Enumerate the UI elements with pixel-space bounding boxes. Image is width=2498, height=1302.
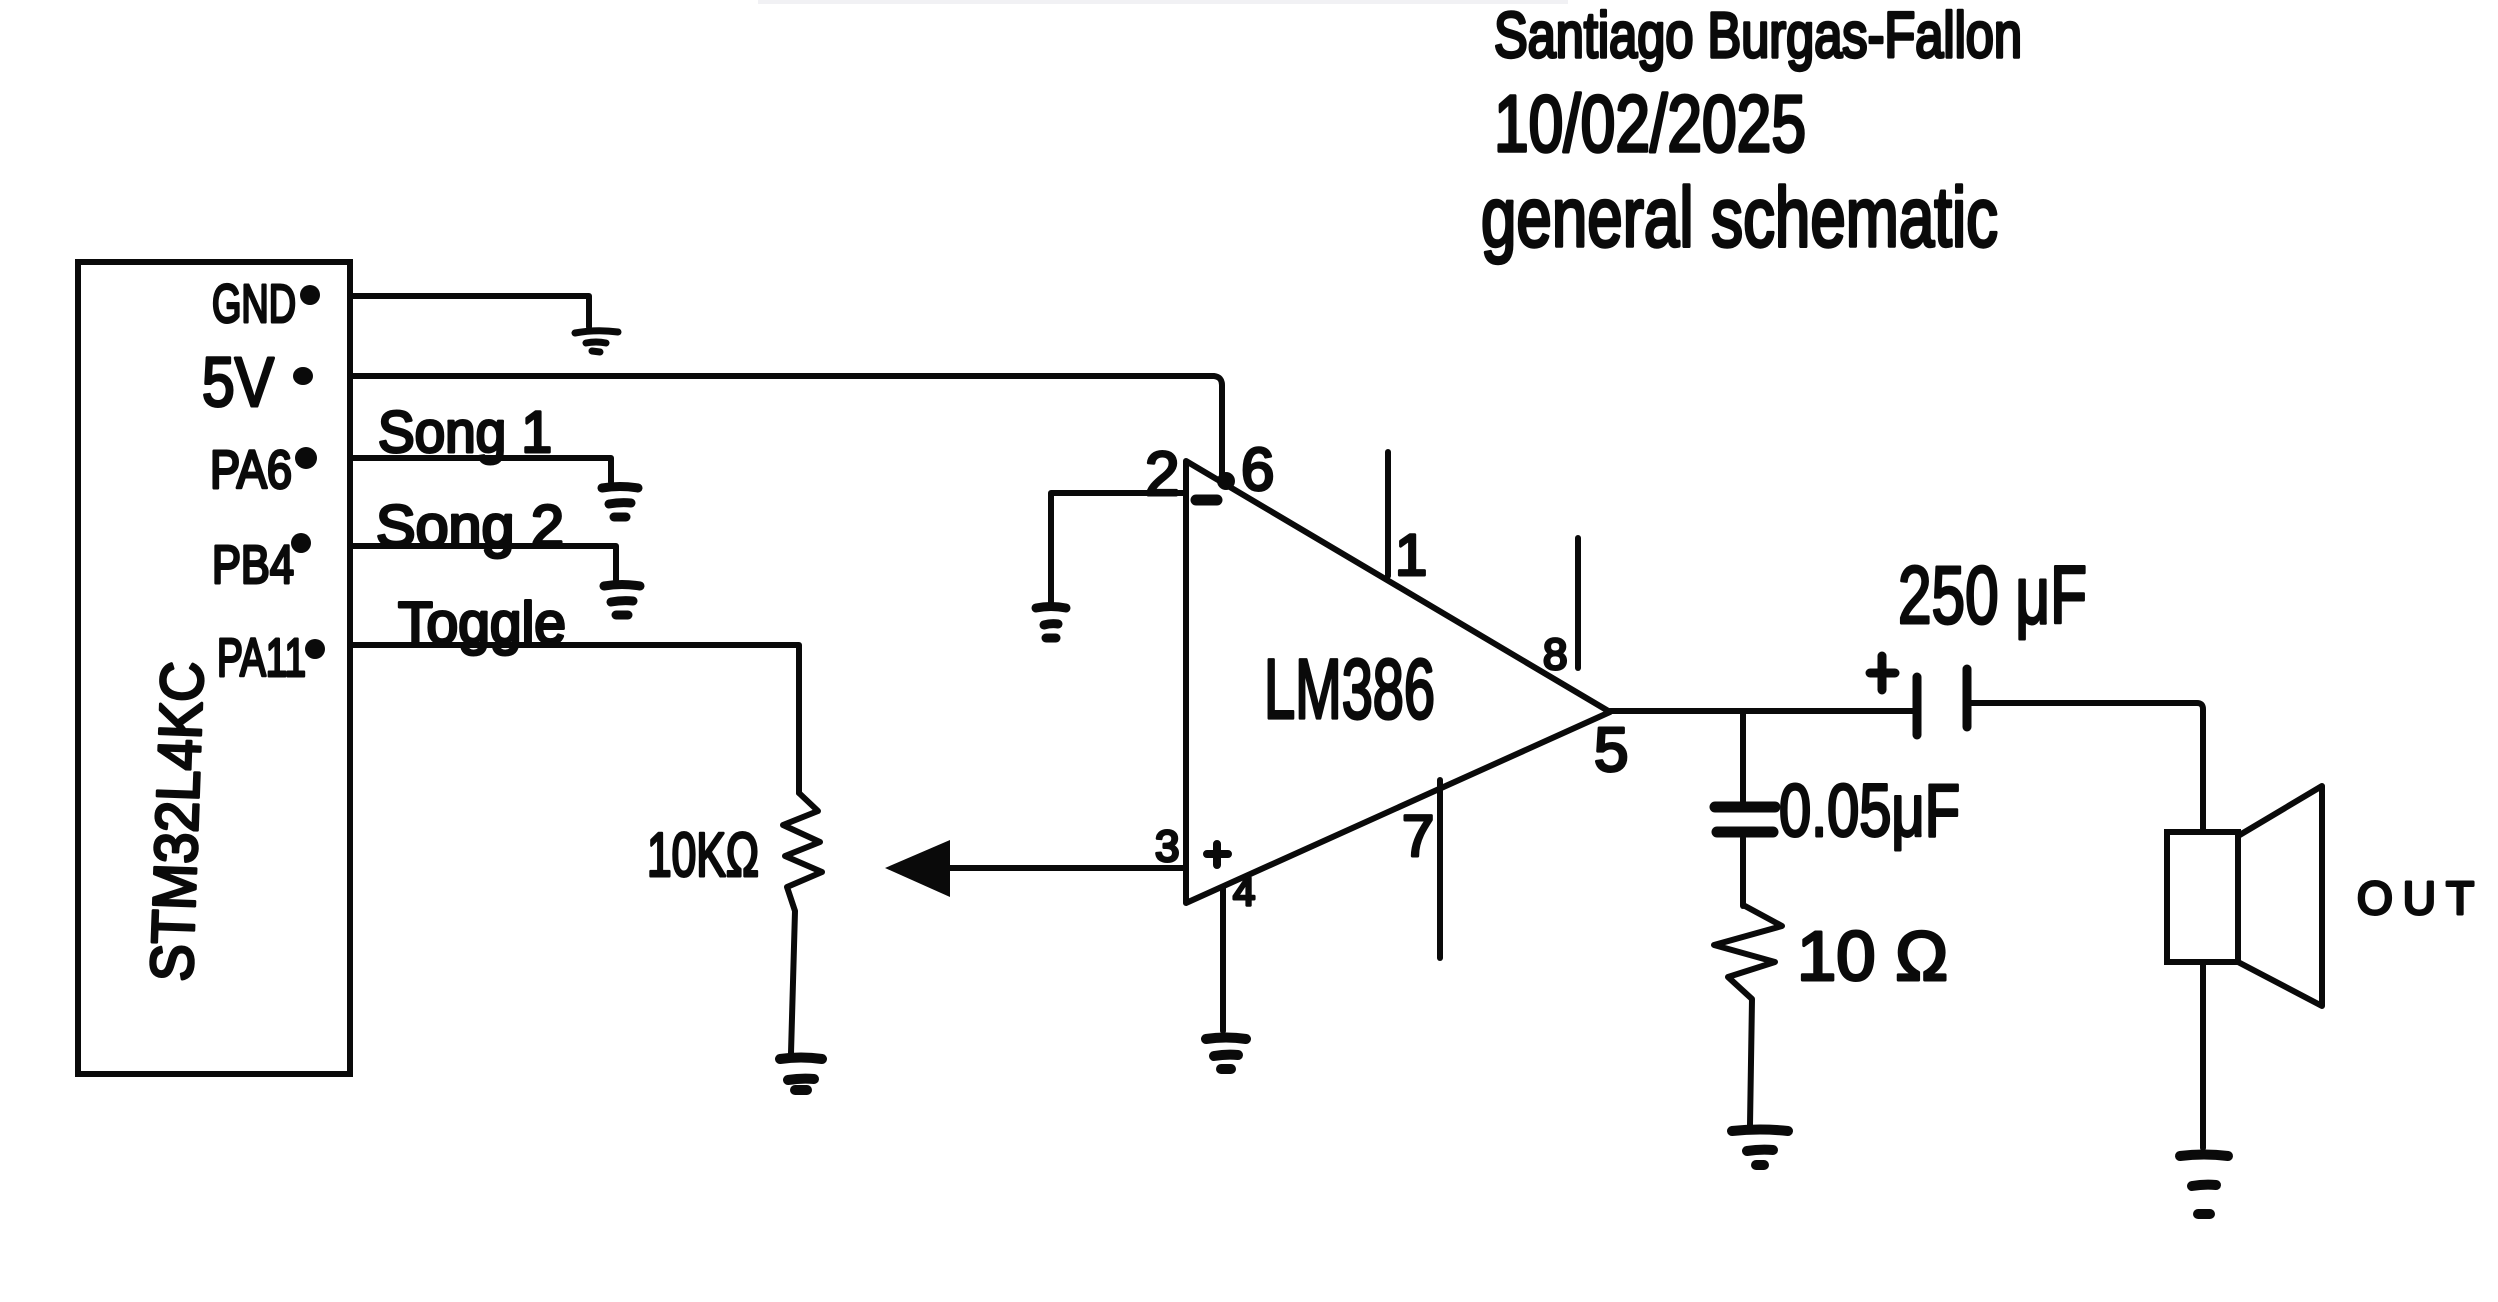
- svg-text:6: 6: [1241, 436, 1274, 503]
- svg-text:Song 2: Song 2: [376, 494, 564, 559]
- svg-text:5: 5: [1594, 716, 1628, 785]
- svg-text:GND: GND: [212, 274, 296, 334]
- svg-text:10KΩ: 10KΩ: [647, 821, 759, 890]
- svg-text:250 μF: 250 μF: [1898, 550, 2087, 641]
- svg-text:8: 8: [1543, 630, 1567, 679]
- svg-text:4: 4: [1233, 870, 1255, 914]
- svg-text:10/02/2025: 10/02/2025: [1494, 79, 1806, 168]
- svg-text:Santiago Burgas-Fallon: Santiago Burgas-Fallon: [1494, 0, 2022, 71]
- svg-text:2: 2: [1145, 440, 1179, 509]
- svg-text:10 Ω: 10 Ω: [1797, 917, 1948, 995]
- svg-text:PB4: PB4: [212, 535, 294, 595]
- svg-text:general schematic: general schematic: [1481, 170, 1998, 264]
- svg-text:PA6: PA6: [210, 440, 292, 500]
- svg-text:7: 7: [1402, 804, 1434, 869]
- svg-text:1: 1: [1395, 523, 1427, 588]
- svg-text:0.05μF: 0.05μF: [1779, 769, 1960, 852]
- svg-text:5V: 5V: [202, 343, 274, 421]
- svg-text:LM386: LM386: [1264, 642, 1435, 736]
- svg-text:STM32L4KC: STM32L4KC: [138, 660, 216, 982]
- svg-text:3: 3: [1155, 822, 1179, 871]
- svg-text:OUT: OUT: [2357, 872, 2484, 924]
- svg-text:PA11: PA11: [217, 628, 306, 688]
